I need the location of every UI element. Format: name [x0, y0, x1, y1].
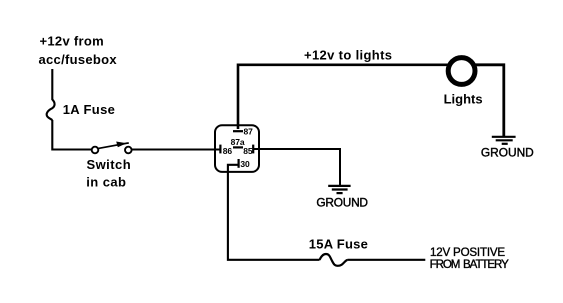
svg-text:85: 85	[243, 146, 253, 156]
wire relay pin 87 up and right to lights	[238, 65, 480, 129]
svg-text:in cab: in cab	[86, 174, 126, 189]
svg-text:+12v to lights: +12v to lights	[304, 48, 392, 63]
svg-text:FROM BATTERY: FROM BATTERY	[430, 258, 510, 271]
relay pin 87a terminal dash	[233, 146, 243, 148]
wire fuse F1 down and right to switch S1	[52, 120, 91, 150]
svg-text:30: 30	[240, 159, 250, 169]
switch S1 left contact	[92, 147, 99, 154]
svg-text:+12v from: +12v from	[40, 33, 104, 48]
svg-text:86: 86	[223, 146, 233, 156]
ground symbol (relay coil)	[328, 186, 350, 193]
wire switch S1 to relay pin 86	[132, 149, 220, 151]
wire relay pin 85 right and down to ground	[254, 149, 340, 185]
svg-text:1A Fuse: 1A Fuse	[63, 102, 116, 117]
wire acc/fusebox down to fuse F1	[51, 69, 53, 100]
relay pin 30 terminal dash	[238, 159, 240, 168]
svg-text:acc/fusebox: acc/fusebox	[39, 52, 118, 67]
label 12V POSITIVE FROM BATTERY	[430, 246, 510, 271]
wire fuse F2 to battery	[348, 259, 426, 261]
wire relay pin 30 down to bottom rail	[228, 165, 320, 260]
wire lights right and down to ground	[475, 65, 504, 137]
svg-text:Switch: Switch	[87, 157, 132, 172]
relay pin 86 terminal dash	[219, 145, 221, 154]
relay K1 body	[215, 125, 259, 172]
relay pin 85 terminal dash	[252, 145, 254, 154]
relay pin 87 terminal dash	[233, 130, 243, 132]
switch S1 lever with arrow	[98, 142, 129, 149]
fuse F2 (15A) squiggle	[320, 254, 348, 266]
svg-text:GROUND: GROUND	[481, 146, 534, 160]
fuse F1 (1A) squiggle	[47, 100, 55, 121]
svg-text:15A Fuse: 15A Fuse	[309, 236, 368, 251]
svg-text:GROUND: GROUND	[316, 196, 368, 210]
switch S1 right contact	[125, 147, 132, 154]
lamp Lights	[448, 58, 475, 85]
svg-text:87: 87	[244, 126, 254, 136]
svg-text:Lights: Lights	[444, 91, 483, 106]
node +12v from acc/fusebox label	[39, 33, 118, 67]
label Switch in cab	[86, 157, 131, 190]
ground symbol (lights)	[492, 137, 516, 144]
